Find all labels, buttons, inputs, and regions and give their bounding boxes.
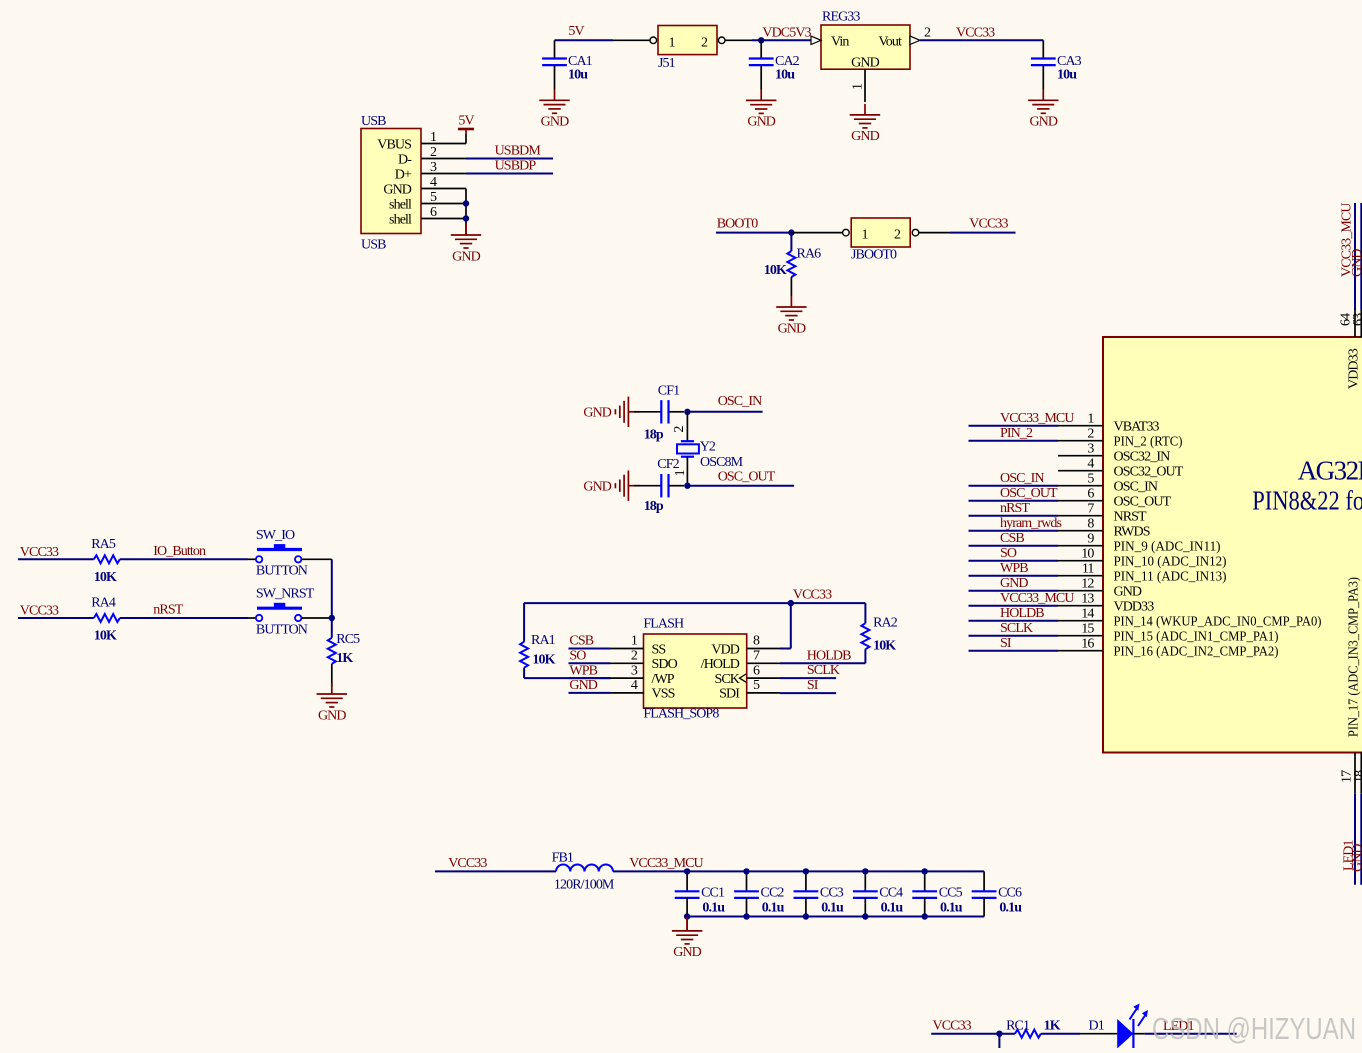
junction VCC33 LED <box>996 1031 1002 1037</box>
svg-text:SW_IO: SW_IO <box>256 528 295 543</box>
wire VCC33_MCU to MCU pin 13 <box>969 605 1059 607</box>
svg-text:SI: SI <box>807 678 819 693</box>
svg-text:OSC_OUT: OSC_OUT <box>1114 495 1172 510</box>
svg-text:9: 9 <box>1087 532 1094 547</box>
svg-text:4: 4 <box>1087 457 1094 472</box>
svg-text:VCC33: VCC33 <box>956 26 995 41</box>
svg-text:AG32F40: AG32F40 <box>1298 455 1362 485</box>
svg-text:/HOLD: /HOLD <box>701 657 740 672</box>
svg-text:GND: GND <box>318 708 346 723</box>
wire RC1 to D1 <box>1041 1033 1080 1035</box>
junction CC2 bottom <box>743 913 749 919</box>
svg-text:GND: GND <box>383 182 411 197</box>
svg-text:2: 2 <box>631 649 638 664</box>
MCU pin 13 VDD33 <box>1058 605 1103 607</box>
svg-text:OSC32_OUT: OSC32_OUT <box>1114 465 1184 480</box>
svg-text:PIN_14 (WKUP_ADC_IN0_CMP_PA0): PIN_14 (WKUP_ADC_IN0_CMP_PA0) <box>1114 615 1322 630</box>
wire CSB <box>569 648 611 650</box>
wire PIN_2 to MCU pin 2 <box>969 440 1059 442</box>
svg-text:RC1: RC1 <box>1006 1019 1030 1034</box>
svg-text:USBDP: USBDP <box>495 158 537 173</box>
junction BOOT0 <box>788 229 794 235</box>
svg-text:OSC8M: OSC8M <box>700 455 744 470</box>
svg-text:WPB: WPB <box>569 663 597 678</box>
svg-text:0.1u: 0.1u <box>940 900 963 915</box>
svg-text:GND: GND <box>1114 585 1142 600</box>
svg-text:VCC33_MCU: VCC33_MCU <box>1000 591 1074 606</box>
svg-text:USBDM: USBDM <box>495 143 542 158</box>
svg-text:18p: 18p <box>644 428 664 443</box>
connector JBOOT0 <box>851 218 910 247</box>
svg-text:SI: SI <box>1000 636 1012 651</box>
resistor RA6 <box>790 233 792 251</box>
svg-text:0.1u: 0.1u <box>881 900 904 915</box>
junction CC1 top <box>684 868 690 874</box>
svg-text:63: 63 <box>1351 313 1362 326</box>
ferrite bead FB1 <box>556 865 613 872</box>
wire VCC33 to RA4 <box>18 617 94 619</box>
svg-text:GND: GND <box>1351 844 1362 872</box>
svg-text:OSC_IN: OSC_IN <box>1114 480 1158 495</box>
svg-text:WPB: WPB <box>1000 561 1028 576</box>
svg-text:hyram_rwds: hyram_rwds <box>1000 516 1061 531</box>
svg-text:1K: 1K <box>1044 1019 1061 1034</box>
junction CC3 top <box>803 868 809 874</box>
wire SW_NRST to RC5 column <box>302 617 332 619</box>
capacitor CC4 <box>864 871 866 891</box>
svg-text:2: 2 <box>672 426 687 433</box>
wire OSC_IN <box>687 411 762 413</box>
svg-text:1K: 1K <box>336 651 353 666</box>
wire HOLDB to MCU pin 14 <box>969 620 1059 622</box>
wire USBDP <box>466 173 553 175</box>
ground at CC1 <box>686 917 688 931</box>
svg-text:GND: GND <box>583 480 611 495</box>
svg-text:SW_NRST: SW_NRST <box>256 587 315 602</box>
svg-text:6: 6 <box>430 205 437 220</box>
wire SO <box>569 662 611 664</box>
junction CC5 top <box>922 868 928 874</box>
ground at USB <box>451 224 481 248</box>
resistor RC1 <box>1015 1030 1041 1038</box>
svg-text:RWDS: RWDS <box>1114 525 1150 540</box>
svg-text:VSS: VSS <box>652 687 675 702</box>
junction OSC_OUT <box>684 483 690 489</box>
resistor RA1 <box>523 603 525 642</box>
wire OSC_OUT <box>687 485 794 487</box>
svg-text:10K: 10K <box>532 652 555 667</box>
svg-text:120R/100M: 120R/100M <box>554 878 615 893</box>
junction CC4 bottom <box>862 913 868 919</box>
svg-text:1: 1 <box>851 83 866 90</box>
svg-text:2: 2 <box>1087 427 1094 442</box>
junction VCC33 rail <box>788 600 794 606</box>
resistor RC5 <box>331 618 333 638</box>
wire VCC33 to RC1 <box>931 1033 1015 1035</box>
wire GND <box>569 692 611 694</box>
USB pin 1 VBUS <box>421 143 466 145</box>
svg-text:PIN_2: PIN_2 <box>1000 426 1033 441</box>
capacitor CC2 <box>746 871 748 891</box>
wire hyram_rwds to MCU pin 8 <box>969 530 1059 532</box>
ground at RA6 <box>776 296 806 320</box>
svg-text:BOOT0: BOOT0 <box>717 216 759 231</box>
svg-text:VCC33: VCC33 <box>933 1019 972 1034</box>
MCU pin 12 GND <box>1058 590 1103 592</box>
svg-text:VCC33: VCC33 <box>793 587 832 602</box>
svg-text:CSB: CSB <box>1000 531 1024 546</box>
svg-text:1: 1 <box>861 228 868 243</box>
USB pin 2 D- <box>421 158 466 160</box>
svg-text:2: 2 <box>894 228 901 243</box>
ground at CA1 <box>539 89 569 113</box>
svg-text:2: 2 <box>924 26 931 41</box>
capacitor CC3 <box>805 871 807 891</box>
capacitor CC5 <box>924 871 926 891</box>
MCU pin 1 VBAT33 <box>1058 425 1103 427</box>
FLASH left pin 3 /WP <box>611 677 644 679</box>
MCU pin 8 RWDS <box>1058 530 1103 532</box>
wire decoupling ground rail <box>687 916 984 918</box>
svg-text:PIN_11 (ADC_IN13): PIN_11 (ADC_IN13) <box>1114 570 1227 585</box>
svg-text:6: 6 <box>753 663 760 678</box>
wire GND to MCU pin 12 <box>969 590 1059 592</box>
MCU pin 3 OSC32_IN <box>1058 455 1103 457</box>
svg-text:NRST: NRST <box>1114 510 1148 525</box>
svg-text:0.1u: 0.1u <box>762 900 785 915</box>
svg-text:Vout: Vout <box>878 35 902 50</box>
svg-text:/WP: /WP <box>652 672 675 687</box>
svg-text:OSC_OUT: OSC_OUT <box>718 470 776 485</box>
svg-text:VCC33: VCC33 <box>20 545 59 560</box>
wire VCC33 rail FLASH <box>524 602 865 604</box>
REG33 GND pin 1 <box>864 69 866 102</box>
svg-text:10K: 10K <box>873 638 896 653</box>
svg-text:GND: GND <box>747 115 775 130</box>
wire JBOOT0 to VCC33 <box>919 232 950 234</box>
wire IO_Button <box>120 558 248 560</box>
junction CC2 top <box>743 868 749 874</box>
svg-text:CC4: CC4 <box>879 886 903 901</box>
svg-text:1: 1 <box>1087 412 1094 427</box>
wire VCC33 to FB1 <box>435 870 556 872</box>
wire to JBOOT0 <box>791 232 845 234</box>
svg-text:PIN8&22 fo: PIN8&22 fo <box>1252 486 1362 516</box>
MCU pin 9 PIN_9 (ADC_IN11) <box>1058 545 1103 547</box>
wire VCC33 to RA5 <box>18 558 94 560</box>
svg-text:USB: USB <box>361 114 386 129</box>
wire down from junction <box>998 1034 1000 1048</box>
wire VCC33_MCU to MCU pin 1 <box>969 425 1059 427</box>
svg-text:CC5: CC5 <box>939 886 963 901</box>
wire VCC33 from REG33 <box>920 39 1043 41</box>
connector J51 <box>658 26 717 55</box>
svg-text:0.1u: 0.1u <box>999 900 1022 915</box>
svg-text:CC6: CC6 <box>998 886 1022 901</box>
junction CC5 bottom <box>922 913 928 919</box>
flash chip FLASH_SOP8 <box>644 634 747 708</box>
pin arrow Vin <box>811 36 821 44</box>
MCU pin 2 PIN_2 (RTC) <box>1058 440 1103 442</box>
FLASH right pin 8 VDD <box>747 648 780 650</box>
ground at CA3 <box>1028 89 1058 113</box>
svg-text:7: 7 <box>753 649 760 664</box>
wire BOOT0 <box>716 232 791 234</box>
capacitor CA3 <box>1042 40 1044 58</box>
FLASH left pin 1 SS <box>611 648 644 650</box>
connector USB <box>361 129 421 234</box>
FLASH right pin 6 SCK <box>747 677 780 679</box>
MCU AG32 chip body <box>1103 337 1362 753</box>
capacitor CA1 <box>554 40 556 58</box>
junction OSC_IN <box>684 409 690 415</box>
FLASH right pin 7 /HOLD <box>747 662 780 664</box>
resistor RA5 <box>94 555 120 563</box>
svg-text:7: 7 <box>1087 502 1094 517</box>
FLASH right pin 5 SDI <box>747 692 780 694</box>
svg-text:OSC_OUT: OSC_OUT <box>1000 486 1058 501</box>
svg-text:5: 5 <box>1087 472 1094 487</box>
svg-text:OSC32_IN: OSC32_IN <box>1114 450 1171 465</box>
svg-text:IO_Button: IO_Button <box>153 544 206 559</box>
svg-text:5: 5 <box>430 190 437 205</box>
ground at RC5 <box>317 683 347 707</box>
svg-text:VCC33_MCU: VCC33_MCU <box>1000 411 1074 426</box>
svg-text:J51: J51 <box>658 56 676 71</box>
svg-text:5V: 5V <box>568 24 584 39</box>
svg-text:0.1u: 0.1u <box>821 900 844 915</box>
svg-text:SS: SS <box>652 642 666 657</box>
svg-text:nRST: nRST <box>153 603 183 618</box>
ground at CA2 <box>746 89 776 113</box>
switch SW_IO <box>257 548 302 551</box>
svg-text:SO: SO <box>1000 546 1017 561</box>
LED D1 <box>1117 1019 1133 1049</box>
svg-text:4: 4 <box>631 678 638 693</box>
wire LED1 bottom right <box>1354 753 1356 794</box>
svg-text:shell: shell <box>389 212 412 227</box>
svg-text:D-: D- <box>398 152 412 167</box>
svg-text:0.1u: 0.1u <box>702 900 725 915</box>
svg-text:VCC33_MCU: VCC33_MCU <box>629 856 703 871</box>
svg-text:GND: GND <box>851 129 879 144</box>
svg-text:12: 12 <box>1081 577 1094 592</box>
svg-text:PIN_9 (ADC_IN11): PIN_9 (ADC_IN11) <box>1114 540 1221 555</box>
svg-text:CSDN @HIZYUAN: CSDN @HIZYUAN <box>1152 1011 1356 1046</box>
MCU pin 15 PIN_15 (ADC_IN1_CMP_PA1) <box>1058 635 1103 637</box>
svg-text:10u: 10u <box>775 68 795 83</box>
svg-text:3: 3 <box>1087 442 1094 457</box>
svg-text:RC5: RC5 <box>336 632 360 647</box>
svg-text:GND: GND <box>541 115 569 130</box>
wire WPB <box>569 677 611 679</box>
svg-text:10K: 10K <box>94 570 117 585</box>
svg-text:VCC33: VCC33 <box>969 216 1008 231</box>
wire OSC_IN to MCU pin 5 <box>969 485 1059 487</box>
wire SI to MCU pin 16 <box>969 650 1059 652</box>
svg-text:VDD33: VDD33 <box>1114 600 1155 615</box>
svg-text:18p: 18p <box>644 499 664 514</box>
svg-text:SO: SO <box>569 649 586 664</box>
svg-text:8: 8 <box>1087 517 1094 532</box>
svg-text:GND: GND <box>1000 576 1028 591</box>
svg-text:FLASH_SOP8: FLASH_SOP8 <box>643 707 719 722</box>
svg-text:SCK: SCK <box>714 672 739 687</box>
svg-text:D1: D1 <box>1089 1019 1105 1034</box>
svg-text:PIN_16 (ADC_IN2_CMP_PA2): PIN_16 (ADC_IN2_CMP_PA2) <box>1114 645 1279 660</box>
wire RA1 to WPB <box>524 677 610 679</box>
svg-text:PIN_17 (ADC_IN3_CMP_PA3): PIN_17 (ADC_IN3_CMP_PA3) <box>1347 577 1362 737</box>
USB pin 3 D+ <box>421 173 466 175</box>
svg-text:SCLK: SCLK <box>1000 621 1033 636</box>
svg-text:13: 13 <box>1081 592 1094 607</box>
USB pin 4 GND <box>421 188 466 190</box>
svg-text:RA6: RA6 <box>797 246 822 261</box>
resistor RA4 <box>94 614 120 622</box>
resistor RA2 <box>864 603 866 623</box>
svg-text:GND: GND <box>851 56 879 71</box>
svg-text:16: 16 <box>1081 637 1094 652</box>
svg-text:1: 1 <box>668 35 675 50</box>
MCU pin 14 PIN_14 (WKUP_ADC_IN0_CMP_PA0) <box>1058 620 1103 622</box>
svg-text:VDD: VDD <box>711 642 739 657</box>
svg-text:CC1: CC1 <box>701 886 725 901</box>
ground at CF1 <box>615 397 639 427</box>
svg-text:D+: D+ <box>395 167 412 182</box>
svg-text:11: 11 <box>1082 562 1095 577</box>
svg-text:CSB: CSB <box>569 634 593 649</box>
wire to FLASH VDD <box>790 603 792 648</box>
svg-text:RA5: RA5 <box>91 537 116 552</box>
svg-text:OSC_IN: OSC_IN <box>1000 471 1044 486</box>
FLASH left pin 2 SDO <box>611 662 644 664</box>
capacitor CC1 <box>686 871 688 891</box>
wire WPB to MCU pin 11 <box>969 575 1059 577</box>
MCU pin 11 PIN_11 (ADC_IN13) <box>1058 575 1103 577</box>
svg-text:VCC33: VCC33 <box>20 604 59 619</box>
svg-text:VBUS: VBUS <box>377 137 411 152</box>
svg-text:1: 1 <box>430 130 437 145</box>
wire SCLK <box>780 677 836 679</box>
wire 5V to J51 <box>555 39 614 41</box>
power port 5V at USB <box>465 134 467 144</box>
FLASH left pin 4 VSS <box>611 692 644 694</box>
wire VCC33_MCU rail <box>613 870 984 872</box>
MCU pin 16 PIN_16 (ADC_IN2_CMP_PA2) <box>1058 650 1103 652</box>
wire nRST to MCU pin 7 <box>969 515 1059 517</box>
wire SW_IO to RC5 column <box>302 558 332 560</box>
svg-text:BUTTON: BUTTON <box>256 622 308 637</box>
svg-text:15: 15 <box>1081 622 1094 637</box>
wire USB ground pins <box>465 189 467 225</box>
svg-text:8: 8 <box>753 634 760 649</box>
svg-text:GND: GND <box>569 678 597 693</box>
svg-text:RA4: RA4 <box>91 596 116 611</box>
capacitor CF2 <box>634 485 661 487</box>
svg-text:6: 6 <box>1087 487 1094 502</box>
svg-text:3: 3 <box>430 160 437 175</box>
wire GND bottom right <box>1360 753 1362 794</box>
svg-text:SDI: SDI <box>719 687 740 702</box>
svg-text:CC2: CC2 <box>761 886 785 901</box>
svg-text:CC3: CC3 <box>820 886 844 901</box>
svg-text:GND: GND <box>778 321 806 336</box>
svg-text:3: 3 <box>631 663 638 678</box>
USB pin 6 shell <box>421 218 466 220</box>
wire USBDM <box>466 158 553 160</box>
svg-text:SDO: SDO <box>652 657 678 672</box>
svg-text:VDD33: VDD33 <box>1347 348 1362 389</box>
svg-text:CF1: CF1 <box>658 384 680 399</box>
svg-text:PIN_10 (ADC_IN12): PIN_10 (ADC_IN12) <box>1114 555 1227 570</box>
svg-text:GND: GND <box>1350 249 1362 277</box>
svg-text:4: 4 <box>430 175 437 190</box>
svg-text:FLASH: FLASH <box>643 617 684 632</box>
svg-text:VCC33: VCC33 <box>448 856 487 871</box>
junction CC3 bottom <box>803 913 809 919</box>
wire SI <box>780 692 836 694</box>
svg-text:GND: GND <box>583 406 611 421</box>
svg-text:OSC_IN: OSC_IN <box>718 394 762 409</box>
svg-text:14: 14 <box>1081 607 1094 622</box>
svg-text:10u: 10u <box>568 68 588 83</box>
wire button column <box>331 559 333 618</box>
capacitor CF1 <box>634 411 661 413</box>
svg-text:CF2: CF2 <box>657 457 679 472</box>
wire SCLK to MCU pin 15 <box>969 635 1059 637</box>
pin arrow Vout pin 2 <box>910 36 920 44</box>
svg-text:5: 5 <box>753 678 760 693</box>
MCU pin 4 OSC32_OUT <box>1058 470 1103 472</box>
wire OSC_OUT to MCU pin 6 <box>969 500 1059 502</box>
svg-text:10u: 10u <box>1057 68 1077 83</box>
wire GND top right <box>1360 203 1362 310</box>
wire J51 pin2 to REG33 <box>725 39 752 41</box>
svg-text:2: 2 <box>701 35 708 50</box>
svg-text:10K: 10K <box>94 629 117 644</box>
ground at CF2 <box>615 471 639 501</box>
svg-text:GND: GND <box>452 250 480 265</box>
svg-text:FB1: FB1 <box>552 850 574 865</box>
svg-text:PIN_2 (RTC): PIN_2 (RTC) <box>1114 435 1183 450</box>
MCU pin 5 OSC_IN <box>1058 485 1103 487</box>
crystal Y2 <box>686 412 688 441</box>
svg-text:10K: 10K <box>764 263 787 278</box>
svg-text:USB: USB <box>361 238 386 253</box>
SCK clock arrow <box>740 674 747 682</box>
wire nRST <box>120 617 248 619</box>
svg-text:VBAT33: VBAT33 <box>1114 420 1160 435</box>
svg-text:HOLDB: HOLDB <box>807 648 851 663</box>
switch SW_NRST <box>257 607 302 610</box>
svg-text:GND: GND <box>1029 115 1057 130</box>
regulator REG33 <box>821 25 910 69</box>
svg-text:Y2: Y2 <box>700 439 716 454</box>
svg-text:BUTTON: BUTTON <box>256 564 308 579</box>
svg-text:Vin: Vin <box>831 35 849 50</box>
svg-text:REG33: REG33 <box>822 10 860 25</box>
junction at RC5 <box>329 615 335 621</box>
capacitor CC6 <box>983 871 985 891</box>
ground at REG33 <box>850 104 880 128</box>
wire VCC33_MCU top right <box>1354 203 1356 310</box>
svg-text:nRST: nRST <box>1000 501 1030 516</box>
svg-text:RA2: RA2 <box>873 616 898 631</box>
MCU pin 7 NRST <box>1058 515 1103 517</box>
wire RA2 to HOLDB <box>780 662 865 664</box>
svg-text:10: 10 <box>1081 547 1094 562</box>
svg-text:HOLDB: HOLDB <box>1000 606 1044 621</box>
